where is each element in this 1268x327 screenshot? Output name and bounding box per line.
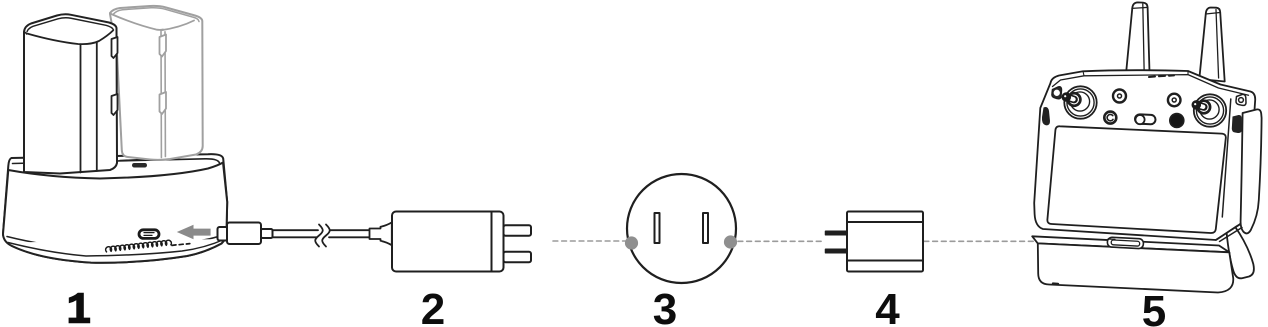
bracket bottom line: [1216, 225, 1243, 242]
left stick: [1062, 86, 1097, 118]
left corner button: [1052, 87, 1062, 99]
strain relief collar: [370, 222, 392, 245]
battery B2 (rear, light gray): [110, 6, 203, 160]
top tiny marks: [1149, 75, 1174, 77]
body inner right edge: [1222, 99, 1231, 217]
controller head body: [1034, 70, 1255, 240]
svg-text:3: 3: [653, 285, 677, 327]
dock latch pill: [1107, 237, 1143, 249]
screen: [1047, 126, 1225, 233]
vent loops: [106, 240, 172, 252]
svg-text:5: 5: [1142, 287, 1166, 327]
prong bottom: [504, 252, 532, 262]
battery B1 tabs: [112, 37, 118, 58]
deck oval detail: [132, 163, 147, 168]
right side grip slab: [1241, 109, 1262, 233]
battery B1 (front, dark): [24, 14, 118, 173]
svg-text:4: 4: [875, 285, 900, 327]
left edge knob: [1042, 107, 1050, 125]
kickstand: [1226, 218, 1254, 278]
usb-c plug body: [227, 223, 261, 245]
gray arrow: [177, 225, 211, 240]
cable break squiggle: [315, 225, 323, 247]
button back-left: [1113, 90, 1126, 103]
button back-right: [1168, 94, 1181, 107]
adapter face line: [491, 212, 493, 271]
battery B2 tabs: [160, 35, 167, 57]
right corner button: [1236, 94, 1246, 105]
plug neck: [261, 229, 273, 238]
hub bevel line: [8, 239, 225, 256]
base tick: [1053, 282, 1058, 285]
usb-c plug tip: [218, 227, 228, 241]
dock base front face: [1038, 243, 1233, 292]
record button (black): [1170, 114, 1184, 128]
top deck facet lines: [1053, 75, 1249, 96]
right stick: [1192, 94, 1227, 126]
antenna left: [1126, 2, 1150, 76]
deck back edge: [120, 159, 152, 161]
pill button: [1135, 114, 1156, 124]
dock base top face: [1032, 236, 1229, 252]
C button: [1104, 112, 1116, 124]
adapter body: [392, 212, 504, 272]
number 1: [69, 293, 91, 323]
right edge knob: [1232, 115, 1242, 133]
svg-text:2: 2: [421, 285, 445, 327]
hub front face: [3, 163, 227, 263]
usb-c port on hub: [139, 230, 159, 239]
cable: [273, 229, 370, 231]
hub rim inner line: [13, 159, 220, 164]
hub back silhouette: [3, 154, 227, 263]
antenna right: [1199, 8, 1224, 82]
prong top: [504, 225, 532, 236]
hub crease line: [7, 234, 225, 248]
